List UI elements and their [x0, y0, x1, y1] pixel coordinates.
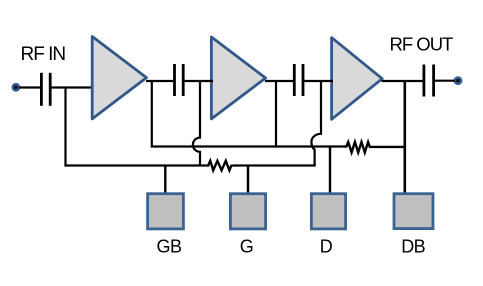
wire: U1 output down to feedback bus 1: [152, 81, 344, 147]
wire: U1 output to coupling capacitor C2: [146, 80, 173, 82]
op-amp U1: [92, 37, 146, 119]
wire: bus 2 tap down to G box: [247, 166, 249, 194]
pad D: [311, 194, 345, 229]
wire: RF IN dot to input capacitor: [19, 86, 40, 88]
wire: U3 output to output capacitor: [382, 80, 423, 82]
wire: bias bus 2 right section: [233, 164, 316, 166]
op-amp U3: [332, 38, 383, 120]
svg-text:RF OUT: RF OUT: [390, 33, 454, 54]
resistor R1 on bus 2: [207, 161, 233, 171]
op-amp U2: [211, 37, 265, 119]
wire: U3 output down through bus 1 to DB box: [403, 81, 406, 194]
wire: U3 input tap, hops over bus 1, joins bus 2: [311, 80, 321, 166]
capacitor C-in: [41, 73, 50, 106]
capacitor C3: [294, 64, 303, 96]
svg-text:GB: GB: [156, 237, 182, 257]
pad GB: [148, 194, 184, 229]
wire: output capacitor to RF OUT dot: [435, 80, 455, 82]
svg-text:RF IN: RF IN: [21, 44, 66, 65]
wire: bus 1 tap down to D box: [329, 147, 331, 194]
svg-text:G: G: [240, 237, 254, 257]
wire: input capacitor to amp U1 input: [52, 86, 94, 88]
wire: C3 to amp U3 input: [304, 80, 333, 82]
pad G: [230, 194, 265, 229]
resistor R2 on bus 1: [344, 142, 406, 152]
wire: U2 output down to feedback bus 1: [275, 81, 277, 148]
wire: C2 to amp U2 input: [185, 80, 214, 82]
svg-text:DB: DB: [401, 237, 425, 257]
capacitor C-out: [424, 65, 434, 97]
svg-text:D: D: [320, 237, 333, 257]
capacitor C2: [175, 64, 184, 96]
wire: bias bus 2 left section: [66, 164, 207, 165]
wire: bus 2 tap down to GB box: [164, 166, 166, 194]
pad DB: [394, 194, 433, 229]
wire: input node down to lower bias bus: [64, 87, 66, 166]
wire: U2 output to coupling capacitor C3: [265, 80, 293, 82]
wire: U2 input tap, hops over bus 1, joins bus 2: [193, 80, 200, 166]
node RF OUT terminal dot: [454, 76, 463, 85]
node RF IN terminal dot: [12, 83, 21, 92]
